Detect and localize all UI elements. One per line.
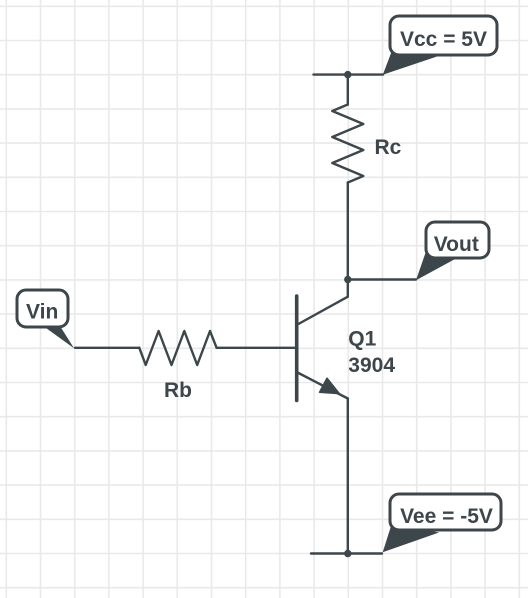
transistor Q1 base bar (295, 296, 299, 401)
callout Vcc tail (383, 48, 437, 75)
wire Rc top lead (347, 75, 349, 105)
svg-text:Rb: Rb (164, 379, 192, 402)
svg-text:Q1: Q1 (348, 328, 376, 351)
callout Vout tail (416, 249, 456, 281)
wire collector vertical (347, 280, 349, 297)
wire Vin to Rb (75, 347, 139, 349)
svg-text:Vin: Vin (26, 301, 58, 324)
resistor Rb (139, 331, 216, 365)
junction dot collector node (344, 276, 351, 283)
svg-text:Vout: Vout (434, 233, 479, 256)
wire bottom rail (311, 552, 382, 554)
wire top rail (314, 73, 384, 75)
resistor Rc (332, 105, 363, 183)
svg-text:Vee = -5V: Vee = -5V (400, 505, 493, 528)
callout Vee tail (383, 523, 439, 552)
callout Vcc box (390, 16, 497, 55)
svg-text:Rc: Rc (375, 136, 402, 159)
transistor Q1 emitter arrow (320, 378, 340, 393)
transistor Q1 collector diagonal (298, 297, 348, 325)
svg-text:3904: 3904 (348, 354, 395, 377)
wire Rc bottom lead to collector node (347, 183, 349, 280)
transistor Q1 emitter diagonal (298, 373, 348, 399)
callout Vin box (17, 290, 68, 327)
svg-text:Vcc = 5V: Vcc = 5V (400, 28, 487, 51)
junction dot bottom rail (344, 550, 351, 557)
wire Vout (348, 278, 416, 280)
callout Vee box (390, 494, 501, 530)
callout Vin tail (41, 324, 75, 348)
junction dot top rail (344, 71, 351, 78)
callout Vout box (426, 222, 489, 258)
wire emitter vertical (347, 399, 349, 554)
wire Rb to base (217, 347, 295, 349)
